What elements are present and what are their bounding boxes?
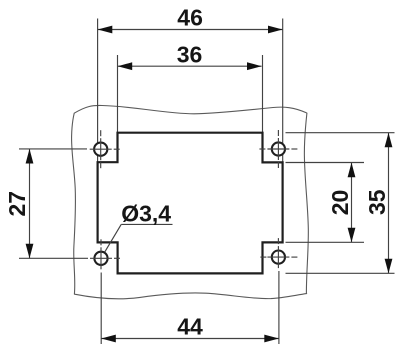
svg-text:44: 44 [177, 314, 203, 340]
centerline crosshair hole BR [260, 238, 297, 268]
hole TR [272, 142, 285, 155]
arrow 27 top [26, 149, 34, 164]
arrow 20 top [348, 163, 356, 178]
extension line 46 left [97, 19, 99, 163]
dimension line 44 [101, 338, 279, 340]
svg-text:20: 20 [327, 190, 353, 216]
extension line 35 top [286, 132, 395, 134]
dim text 36 [177, 42, 203, 68]
extension line 46 right [282, 19, 284, 163]
extension line 36 left [117, 55, 119, 133]
centerline crosshair hole BL [90, 239, 120, 269]
extension line 27 top (hole TL centerline extended left) [19, 148, 87, 150]
arrow 27 bottom [26, 244, 34, 259]
panel plate outline (wavy break edges) [72, 105, 309, 298]
arrow 46 left [98, 26, 113, 34]
extension line 44 right (hole BR centerline extended down) [278, 271, 280, 344]
centerline crosshair hole TR [259, 130, 297, 168]
centerline crosshair hole TL [90, 130, 120, 168]
svg-text:27: 27 [4, 191, 30, 217]
hole TL (Ø3,4) [94, 143, 107, 156]
hole diameter label Ø3,4 [121, 201, 171, 227]
arrow 44 right [264, 335, 279, 343]
extension line 35 bottom [286, 272, 395, 274]
svg-text:36: 36 [177, 42, 203, 68]
dim text 35 (rotated) [364, 189, 390, 215]
arrow 35 bottom [385, 259, 393, 274]
leader line for Ø3,4 [105, 224, 173, 252]
arrow 46 right [268, 26, 283, 34]
dim text 44 [177, 314, 203, 340]
arrow 36 left [118, 62, 133, 70]
dimension line 46 [98, 29, 283, 31]
extension line 44 left (hole BL centerline extended down) [100, 273, 102, 345]
dim text 27 (rotated) [4, 191, 30, 217]
svg-text:Ø3,4: Ø3,4 [121, 201, 171, 227]
extension line 27 bottom (hole BL centerline extended left) [19, 257, 88, 259]
arrow 36 right [247, 62, 262, 70]
arrow 20 bottom [348, 228, 356, 243]
dim text 46 [177, 5, 203, 31]
dimension line 35 [388, 133, 390, 274]
panel cutout outline (rectangle with side tabs) [98, 133, 283, 274]
dimension line 36 [118, 65, 262, 67]
arrow 35 top [385, 133, 393, 148]
hole BL [94, 252, 107, 265]
svg-text:46: 46 [177, 5, 203, 31]
dimension line 27 [29, 149, 31, 258]
dimension line 20 [351, 163, 353, 243]
svg-text:35: 35 [364, 189, 390, 215]
arrow 44 left [101, 335, 116, 343]
extension line 20 bottom [286, 241, 365, 243]
extension line 36 right [262, 55, 264, 133]
extension line 20 top [286, 162, 365, 164]
dim text 20 (rotated) [327, 190, 353, 216]
hole BR [272, 251, 285, 264]
